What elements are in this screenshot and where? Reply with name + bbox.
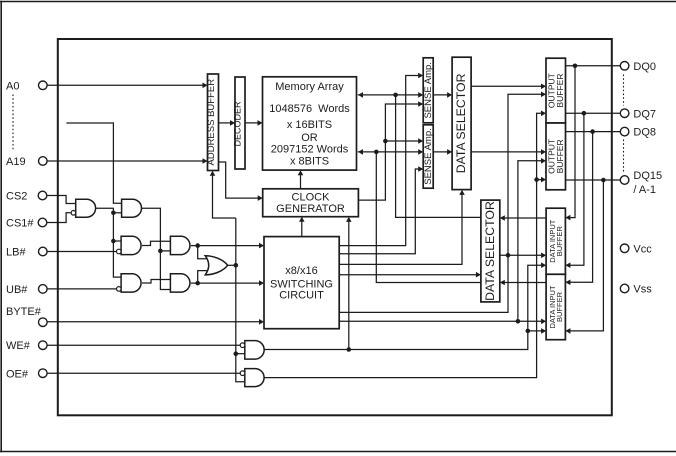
svg-text:BUFFER: BUFFER bbox=[555, 226, 564, 257]
svg-text:Vss: Vss bbox=[633, 284, 652, 296]
svg-text:OE#: OE# bbox=[6, 368, 29, 380]
svg-text:DATA SELECTOR: DATA SELECTOR bbox=[454, 73, 468, 173]
svg-text:OR: OR bbox=[301, 132, 318, 144]
svg-text:SENSE Amp.: SENSE Amp. bbox=[423, 62, 434, 119]
svg-text:A0: A0 bbox=[6, 80, 19, 92]
svg-text:CS2: CS2 bbox=[6, 191, 27, 203]
svg-text:DECODER: DECODER bbox=[233, 101, 243, 147]
svg-text:DQ0: DQ0 bbox=[633, 61, 656, 73]
svg-text:DQ8: DQ8 bbox=[633, 127, 656, 139]
svg-text:UB#: UB# bbox=[6, 284, 28, 296]
svg-text:GENERATOR: GENERATOR bbox=[276, 203, 345, 215]
svg-text:x 16BITS: x 16BITS bbox=[287, 119, 332, 131]
svg-text:CIRCUIT: CIRCUIT bbox=[279, 290, 324, 302]
svg-text:1048576 Words: 1048576 Words bbox=[269, 103, 350, 115]
svg-text:BYTE#: BYTE# bbox=[6, 306, 42, 318]
svg-text:x8/x16: x8/x16 bbox=[285, 265, 317, 277]
svg-text:LB#: LB# bbox=[6, 247, 26, 259]
svg-text:BUFFER: BUFFER bbox=[555, 291, 564, 322]
svg-text:BUFFER: BUFFER bbox=[555, 74, 565, 108]
svg-text:Vcc: Vcc bbox=[633, 243, 652, 255]
svg-text:DQ7: DQ7 bbox=[633, 108, 656, 120]
svg-text:A19: A19 bbox=[6, 156, 26, 168]
svg-text:WE#: WE# bbox=[6, 340, 31, 352]
svg-text:2097152 Words: 2097152 Words bbox=[271, 144, 349, 156]
svg-text:ADDRESS BUFFER: ADDRESS BUFFER bbox=[206, 79, 217, 166]
svg-text:x 8BITS: x 8BITS bbox=[290, 155, 329, 167]
svg-text:CLOCK: CLOCK bbox=[292, 192, 331, 204]
svg-text:/ A-1: / A-1 bbox=[633, 184, 656, 196]
svg-text:BUFFER: BUFFER bbox=[555, 139, 565, 173]
svg-text:DQ15: DQ15 bbox=[633, 170, 662, 182]
svg-text:CS1#: CS1# bbox=[6, 218, 34, 230]
svg-text:Memory Array: Memory Array bbox=[275, 81, 344, 93]
svg-text:DATA SELECTOR: DATA SELECTOR bbox=[483, 201, 497, 301]
svg-text:SENSE Amp.: SENSE Amp. bbox=[423, 128, 434, 185]
